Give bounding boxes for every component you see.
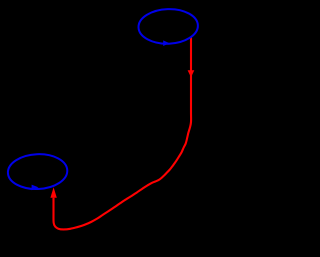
arrowhead at end of red curve (pointing up) (50, 187, 56, 197)
arrowhead mid red line (pointing down) (188, 70, 195, 77)
ellipse bottom-left (blue cycle) (7, 153, 68, 190)
wire: red connecting curve (53, 38, 191, 230)
arrowhead on top ellipse (blue, pointing right) (163, 40, 169, 46)
arrowhead on bottom ellipse (blue, pointing right) (32, 185, 39, 191)
ellipse top-right (blue cycle) (138, 8, 199, 45)
